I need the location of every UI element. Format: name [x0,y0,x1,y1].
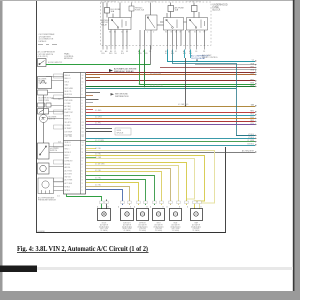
hot-at-all-times note (top left) [39,33,55,43]
page chrome: scrollbar thumb (black bar) [0,266,37,273]
HVAC control module box U1 [64,73,86,195]
fuse holder F2 [146,15,158,30]
wire red run 1 [86,112,255,114]
temperature switch S2 [38,143,50,159]
short pin stubs [86,96,96,158]
air inlet actuator box B2 [121,209,134,221]
wire blk stub [86,99,99,101]
page chrome: scrollbar track [37,267,293,270]
fuse F1 (BLOWER fuse) [105,3,110,18]
wire orange run r2 [160,67,255,69]
fuse F4 [192,3,198,18]
wire dk run (A/C request) [86,152,255,154]
yellow nest wire 1 [86,151,215,210]
cyan stubs below relay [184,50,186,59]
wire below blower motor [43,123,45,144]
left margin note [38,51,56,59]
fuse F1b (HTR A/C fuse) [129,3,134,18]
page chrome: top gray line [0,0,300,1]
hot labels above fuse block [101,0,202,3]
wire tan short pin10 [86,80,255,82]
wire dk blu stub [86,92,100,94]
module connector strip [80,73,82,195]
yellow drop pair box3 [86,180,146,206]
blower motor M1 [40,115,48,123]
svg-text:Fig. 4: 3.8L VIN 2, Automatic: Fig. 4: 3.8L VIN 2, Automatic A/C Circui… [17,244,148,253]
wire cyan run [86,115,255,117]
caption underline [17,251,149,254]
terminal boxes [38,103,45,107]
splice S314 [115,128,131,135]
module pin rows [65,74,84,192]
left pin-label boxes beside module [54,74,64,182]
yellow nest wire 7 [86,172,162,206]
fuse F3 (A/C fuse) [168,3,174,18]
relay K3 (high blower relay) [187,18,208,31]
wire tan long run [86,106,255,108]
wire dk grn from cutoff switch [46,64,151,66]
junction node at green B [144,86,146,88]
page chrome: left gray margin [0,0,3,300]
relay pin number labels [109,32,205,34]
wire drop to green junction [150,46,152,65]
wires inside fuse block [103,2,205,46]
connector labels above bottom boxes [97,206,202,209]
mode actuator box B1 [98,209,111,221]
connector pin label boxes [100,201,202,204]
right edge arrowheads [255,60,257,153]
cyan wires from fuse block elbow [168,50,256,62]
yellow drop pair box2 [86,187,130,206]
legend dash marks [38,44,57,46]
wire maroon pin12 [86,74,255,76]
wire cyan pair lower [236,135,255,137]
page chrome: right gray margin [295,0,300,300]
sensor G1 (round) [38,163,50,174]
wire lt grn run [86,141,255,143]
black vertical from fuse band [185,58,187,107]
yellow nest wire 3 [86,159,195,206]
yellow nest wire 5 [86,166,179,206]
diagram frame border (left + bottom + lower-right) [37,0,226,233]
note arrow 2 [111,93,129,98]
blower motor label [49,117,57,121]
black wire to mode actuator [106,200,108,210]
pressure sensor label [38,197,57,202]
green wire to mode actuator [67,194,102,209]
wire gray stub [86,128,112,130]
underhood fuse block dashed box [101,2,212,46]
yellow nest wire 2 [86,156,205,210]
wire brown short pin11 [86,77,100,79]
mid-run wire labels [95,73,188,186]
actuator box B5 [170,209,182,221]
blower motor processor box [38,77,52,89]
A/C refrigerant pressure sensor [38,178,54,194]
relay box left [38,109,49,115]
wire teal run to vertical [86,88,236,90]
connector band ticks below fuse block [103,46,205,50]
A/C comp relay note [202,54,218,59]
hvac module title [64,53,75,61]
junction node at green A [139,83,141,85]
wire cyan run low [86,145,255,147]
A/C compressor cutoff switch S1 [38,59,47,67]
wire gray run r1 [195,64,255,66]
right edge wire terminal labels [242,59,255,152]
relay K1 label [101,20,110,26]
wire stubs from top into relays [113,3,199,18]
connector band pin labels [100,50,205,53]
actuator box B3 [137,209,149,221]
wire dk grn vertical from fuse band A [139,50,141,85]
wire dk stub2 [86,131,112,133]
note arrow automatic A/C [109,68,137,73]
actuator box B6 [191,209,203,221]
wire to blower motor [43,95,45,114]
connector band labels row 2 [101,53,193,55]
wire red run 2 [86,121,255,123]
cyan wire 2 elbow down long vertical [173,50,237,136]
tan nest wire 8 [86,176,155,206]
green nest wire 4 [86,163,187,206]
wire dk grn vertical from fuse band B [144,50,146,87]
resistor block box [38,90,48,95]
wire maroon run r4 [86,72,255,74]
relay K2 (A/C compressor relay) [164,18,184,31]
page chrome: right page edge dark line [293,0,295,300]
wire green run B from module [86,86,255,88]
junction node tan/black [185,105,187,107]
wire purple run [86,124,255,126]
component-to-module wire stubs [46,77,64,191]
page chrome: bottom gray band [0,291,300,300]
actuator box B4 [153,209,165,221]
dk green nest wire 6 [86,169,171,206]
relay K1 (blower motor relay) [109,18,132,30]
mode actuator label [99,223,110,233]
wire gray run r3 [210,69,255,71]
resistor block label [39,98,55,102]
wire green run A [140,84,256,86]
module connector dividers [64,98,86,141]
underhood fuse block label text [213,5,228,12]
wire orange run [86,118,255,120]
